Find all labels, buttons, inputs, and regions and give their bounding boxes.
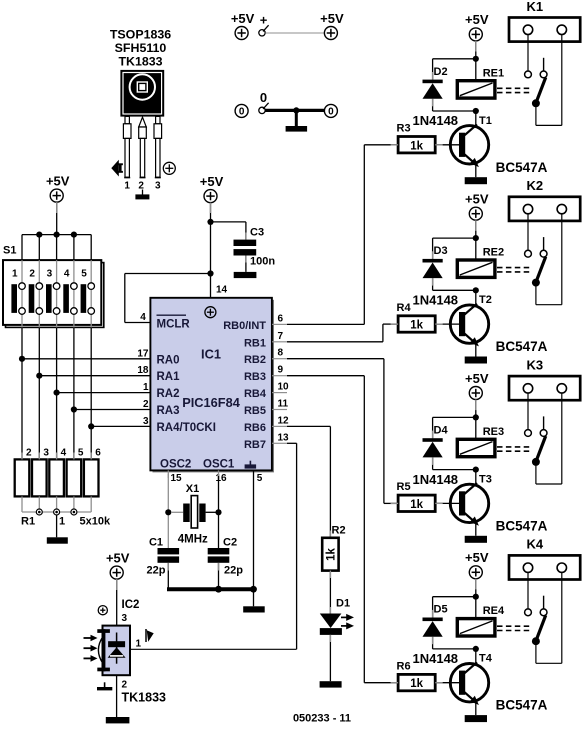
wire R1 to common rail [56, 496, 58, 512]
resistor R4 1k [397, 302, 436, 332]
wire stub [245, 233, 247, 240]
wire to D5 [433, 596, 476, 598]
svg-text:RA0: RA0 [157, 354, 180, 366]
svg-text:SFH5110: SFH5110 [115, 41, 167, 55]
mechanical link dashes RE3 [497, 447, 532, 451]
svg-text:22p: 22p [224, 565, 243, 577]
svg-text:2: 2 [26, 447, 32, 458]
ground R1 [47, 537, 68, 543]
svg-text:1: 1 [136, 639, 142, 650]
wire stub [475, 220, 477, 231]
wire K2 right down [561, 214, 563, 305]
junction D5 top [473, 594, 479, 600]
ground emitter T2 [465, 357, 487, 364]
wire D1 to ground [329, 635, 331, 681]
svg-text:C1: C1 [149, 537, 163, 549]
wire rail into S1 [56, 235, 58, 261]
junction on S1 rail [71, 232, 77, 238]
connector pin 0 [259, 90, 269, 113]
wire base [435, 502, 459, 504]
svg-text:6: 6 [278, 313, 284, 324]
svg-text:BC547A: BC547A [496, 698, 548, 713]
wire pole down [535, 462, 537, 484]
R1 labels [21, 516, 111, 528]
svg-text:13: 13 [278, 432, 290, 443]
svg-text:5x10k: 5x10k [80, 516, 111, 528]
wire stub [432, 431, 434, 439]
wire stub [432, 251, 434, 259]
resistor R1 element 2 [32, 459, 47, 496]
wire RB1 out [287, 341, 383, 343]
wire relay to collector [475, 649, 477, 664]
svg-text:D5: D5 [434, 604, 448, 616]
junction collector node [473, 287, 479, 293]
svg-text:+5V: +5V [231, 11, 255, 26]
svg-text:4: 4 [64, 269, 70, 280]
wire S1 col5 down to R1 [90, 327, 92, 459]
svg-text:0: 0 [260, 90, 267, 105]
svg-text:5: 5 [78, 447, 84, 458]
wire X1 left lead [171, 511, 183, 513]
diode D4 1N4148 [413, 424, 459, 486]
S1 position 3 [46, 260, 60, 327]
wire to MCLR pin 4 [125, 322, 151, 324]
+5V terminal above IC2 [106, 550, 130, 579]
svg-text:+5V: +5V [46, 173, 70, 188]
svg-text:100n: 100n [250, 255, 275, 267]
wire pole across [536, 304, 562, 306]
wire stub [475, 41, 477, 52]
svg-text:3: 3 [43, 447, 49, 458]
wire K3 left to contact [527, 393, 529, 430]
svg-text:RA3: RA3 [157, 405, 180, 417]
plus mark near IC2 [98, 606, 107, 615]
+5V terminal channel 3 [465, 371, 489, 400]
wire D5 anode lead [432, 637, 434, 649]
wire riser channel 3 [383, 359, 385, 504]
relay contact RE1 [525, 58, 547, 108]
+5V terminal channel 4 [465, 550, 489, 579]
svg-text:R5: R5 [397, 481, 411, 493]
plus mark inside IC1 [205, 307, 216, 318]
wire to D3 [433, 237, 476, 239]
svg-text:2: 2 [143, 399, 149, 410]
svg-text:C2: C2 [223, 537, 237, 549]
wire stub [56, 202, 58, 213]
svg-text:R4: R4 [397, 302, 412, 314]
wire thick ground rail [167, 587, 254, 591]
junction D2 top [473, 56, 479, 62]
wire C3 bottom lead [245, 256, 247, 272]
wire R1 to common rail [38, 496, 40, 512]
svg-text:T4: T4 [479, 653, 493, 665]
IC2 case ground glyph [97, 682, 112, 690]
wire to C3 [211, 221, 246, 223]
connector K1 [509, 0, 580, 42]
node RA4 junction [88, 423, 94, 429]
svg-text:RB7: RB7 [244, 439, 266, 451]
svg-text:3: 3 [155, 181, 161, 192]
wire D4 to collector node [433, 469, 476, 471]
wire MCLR pullup top [125, 273, 211, 275]
svg-text:TSOP1836: TSOP1836 [110, 28, 171, 42]
wire 0V thick link [265, 109, 324, 112]
LED D1 [320, 598, 354, 635]
mechanical link dashes RE2 [497, 268, 532, 272]
IR receiver leg pin 2 [139, 117, 147, 177]
svg-text:22p: 22p [147, 565, 166, 577]
junction circle on R1 rail [71, 509, 77, 515]
wire stub [218, 563, 220, 571]
wire pin5 down [253, 470, 255, 589]
wire stub [56, 453, 58, 460]
svg-text:R1: R1 [21, 516, 35, 528]
svg-text:1: 1 [143, 382, 149, 393]
svg-text:RE3: RE3 [483, 426, 504, 438]
wire stub [329, 607, 331, 615]
wire stub [38, 453, 40, 460]
svg-text:8: 8 [278, 348, 284, 359]
svg-text:3: 3 [143, 416, 149, 427]
wire base [435, 323, 459, 325]
svg-text:K4: K4 [526, 537, 543, 552]
svg-text:MCLR: MCLR [157, 319, 191, 331]
svg-text:D4: D4 [434, 424, 449, 436]
svg-text:2: 2 [122, 680, 128, 691]
wire RB7 out [287, 442, 297, 444]
ground IC2 [106, 717, 130, 723]
svg-text:RE1: RE1 [483, 67, 504, 79]
IC2 labels top [122, 599, 140, 624]
svg-text:RB5: RB5 [244, 405, 266, 417]
ground emitter T4 [465, 715, 487, 722]
wire stub [329, 531, 331, 538]
wire to IC1 RA4 [91, 425, 150, 427]
wire RB3 out [287, 375, 364, 377]
wire stub [475, 579, 477, 590]
wire stub [391, 144, 399, 146]
relay coil RE4 [457, 605, 505, 636]
wire rail into S1 [73, 235, 75, 261]
capacitor C1 22p [147, 537, 180, 577]
svg-text:R6: R6 [397, 661, 411, 673]
IC2 pin2 labels [122, 680, 167, 705]
wire D5 to collector node [433, 648, 476, 650]
svg-text:C3: C3 [250, 227, 264, 239]
wire stub [21, 453, 23, 460]
wire stub [391, 682, 399, 684]
junction pin5/rail [250, 586, 257, 593]
resistor R1 element 3 [49, 459, 64, 496]
wire +5V to relay [475, 41, 477, 81]
svg-text:1k: 1k [410, 140, 423, 152]
wire +5V to IC2 pin3 [116, 579, 118, 626]
resistor R2 1k [322, 525, 345, 571]
svg-text:T3: T3 [479, 473, 492, 485]
wire D2 cathode lead [432, 59, 434, 80]
IC1 pin 18 RA1 [137, 365, 180, 383]
resistor R1 element 1 [15, 459, 30, 496]
wire S1 col3 down to R1 [56, 327, 58, 459]
S1 position 2 [29, 260, 43, 327]
svg-text:2: 2 [138, 181, 144, 192]
wire emitter down [475, 343, 477, 356]
svg-text:RB6: RB6 [244, 422, 266, 434]
wire IC2 pin2 to ground [116, 675, 118, 717]
DIP switch S1 [3, 245, 104, 328]
svg-text:7: 7 [278, 331, 284, 342]
IC1 pin 7 RB1 [244, 331, 287, 350]
op IC1 PIC16F84 body [150, 298, 274, 473]
wire to IC1 RA0 [22, 358, 150, 360]
svg-text:1: 1 [124, 181, 130, 192]
wire D2 anode lead [432, 99, 434, 111]
resistor R1 element 4 [67, 459, 82, 496]
wire RB6 out [287, 425, 330, 427]
wire to R3 [364, 144, 398, 146]
wire K2 left to contact [527, 214, 529, 251]
IC1 name labels [182, 347, 241, 411]
relay coil RE3 [457, 426, 504, 457]
svg-text:R2: R2 [332, 525, 346, 537]
wire C3 top lead [245, 222, 247, 240]
junction +5V/C3 [207, 219, 213, 225]
wire stub [329, 635, 331, 642]
0V terminal right [324, 104, 337, 117]
wire stub [210, 203, 212, 213]
connector K4 [509, 537, 580, 580]
wire D3 anode lead [432, 278, 434, 290]
wire RB0 out [287, 323, 364, 325]
svg-text:BC547A: BC547A [496, 160, 548, 175]
relay coil RE1 [457, 67, 504, 98]
svg-text:K2: K2 [526, 178, 543, 193]
wire S1 col2 down to R1 [38, 327, 40, 459]
wire X1 right lead [206, 511, 216, 513]
junction OSC1/X1 [215, 509, 221, 515]
wire to ground [295, 110, 298, 126]
wire rail into S1 [21, 235, 23, 261]
ground emitter T1 [465, 177, 487, 184]
svg-text:4: 4 [140, 312, 146, 323]
IC1 OSC pins [160, 459, 263, 485]
connector K2 [509, 178, 580, 221]
svg-text:050233 - 11: 050233 - 11 [293, 713, 351, 725]
junction D3 top [473, 235, 479, 241]
wire D2 to collector node [433, 110, 476, 112]
diode D3 1N4148 [413, 245, 459, 307]
wire emitter down [475, 164, 477, 177]
junction collector node [473, 646, 479, 652]
wire pole down [535, 283, 537, 305]
wire pole down [535, 103, 537, 125]
svg-text:4MHz: 4MHz [178, 534, 208, 546]
wire rail into S1 [38, 235, 40, 261]
wire R1 pin1 to ground [56, 515, 58, 537]
junction collector node [473, 467, 479, 473]
IC1 pin 4 MCLR [140, 312, 190, 331]
svg-text:3: 3 [47, 269, 53, 280]
+5V terminal above S1 [46, 173, 70, 202]
svg-text:4: 4 [61, 447, 67, 458]
svg-text:1N4148: 1N4148 [413, 113, 459, 128]
junction circle on R1 rail [54, 509, 60, 515]
svg-text:2: 2 [29, 269, 35, 280]
wire riser channel 4 [363, 376, 365, 683]
wire to IC1 RA3 [74, 409, 150, 411]
wire stub [432, 637, 434, 645]
wire S1 col1 down to R1 [21, 327, 23, 459]
resistor R5 1k [397, 481, 436, 511]
capacitor C2 22p [208, 537, 244, 577]
wire stub [391, 323, 399, 325]
svg-text:OSC1: OSC1 [203, 459, 235, 471]
wire stub [435, 502, 443, 504]
svg-text:RE2: RE2 [483, 247, 504, 259]
wire IC2 output to RB7 riser [130, 648, 297, 650]
wire R1 to common rail [21, 496, 23, 512]
svg-text:15: 15 [170, 473, 182, 484]
wire stub [116, 579, 118, 590]
relay contact RE3 [525, 416, 547, 466]
wire stub [435, 144, 443, 146]
ground under IR pin 2 [135, 194, 149, 199]
wire to D2 [433, 58, 476, 60]
svg-text:0: 0 [239, 107, 245, 118]
node RA3 junction [71, 406, 77, 412]
wire stub [475, 400, 477, 411]
svg-text:T1: T1 [479, 115, 492, 127]
svg-text:S1: S1 [3, 245, 16, 257]
node RA0 junction [19, 356, 25, 362]
svg-text:X1: X1 [186, 483, 199, 495]
wire rail into S1 [90, 235, 92, 261]
svg-text:18: 18 [137, 365, 149, 376]
plus polarity mark at pin 3 [163, 162, 175, 174]
wire OSC2 stub [167, 470, 169, 478]
IR receiver pin numbers 1 2 3 [124, 181, 161, 192]
IC1 pin 3 RA4/T0CKI [143, 416, 216, 434]
wire +5V down to IC1 pin14 [210, 203, 212, 298]
0V terminal left [235, 104, 248, 117]
svg-text:14: 14 [216, 285, 228, 296]
wire to R4 [383, 323, 398, 325]
ground main rail [243, 606, 265, 612]
svg-text:12: 12 [278, 415, 290, 426]
+5V terminal above IC1 [200, 174, 224, 203]
+5V terminal top middle left [231, 11, 255, 40]
S1 position 5 [81, 260, 95, 327]
svg-text:RA4/T0CKI: RA4/T0CKI [157, 422, 216, 434]
photodiode IC2 TK1833 body [97, 626, 130, 676]
IC1 pin 6 RB0/INT [223, 313, 287, 332]
svg-text:BC547A: BC547A [496, 518, 548, 533]
wire C1 to rail [167, 563, 169, 589]
wire riser channel 1 [363, 145, 365, 325]
svg-text:TK1833: TK1833 [118, 54, 162, 68]
wire D5 cathode lead [432, 597, 434, 618]
svg-text:5: 5 [257, 473, 263, 484]
wire K1 left to contact [527, 35, 529, 72]
wire stub [432, 610, 434, 618]
svg-text:6: 6 [95, 447, 101, 458]
diode D2 1N4148 [413, 66, 459, 128]
wire OSC2 down [167, 474, 169, 548]
IC2 incoming IR arrows [84, 635, 98, 662]
svg-text:11: 11 [278, 399, 289, 410]
IC1 pin 1 RA2 [143, 382, 180, 400]
wire stub [245, 256, 247, 263]
svg-text:1N4148: 1N4148 [413, 651, 459, 666]
svg-text:1N4148: 1N4148 [413, 293, 459, 308]
relay contact RE4 [525, 596, 547, 646]
wire emitter down [475, 523, 477, 536]
svg-text:D2: D2 [434, 66, 448, 78]
wire emitter down [475, 702, 477, 715]
relay coil RE2 [457, 247, 504, 278]
IR receiver package front view [120, 70, 164, 117]
svg-text:RA2: RA2 [157, 388, 180, 400]
svg-text:+5V: +5V [465, 550, 489, 565]
svg-text:10: 10 [278, 382, 290, 393]
transistor T1 BC547A [450, 115, 547, 175]
IC2 output arrow glyph [146, 629, 154, 642]
mechanical link dashes RE4 [497, 626, 532, 630]
svg-text:1N4148: 1N4148 [413, 472, 459, 487]
svg-text:RA1: RA1 [157, 371, 181, 383]
IR receiver leg pin 1 [123, 116, 131, 177]
svg-text:5: 5 [81, 269, 87, 280]
IC1 pin 2 RA3 [143, 399, 180, 417]
wire R2 to D1 [329, 571, 331, 615]
svg-text:1: 1 [12, 269, 18, 280]
junction D4 top [473, 414, 479, 420]
junction +5V/MCLR [207, 270, 213, 276]
wire pole down [535, 641, 537, 663]
R1 pin numbers 2-6 [26, 447, 101, 458]
wire +5V to relay [475, 220, 477, 260]
IC1 pin 12 RB6 [244, 415, 289, 434]
wire stub [432, 99, 434, 107]
IC1 pin 10 RB4 [244, 382, 289, 401]
svg-text:D1: D1 [336, 598, 350, 610]
diode D5 1N4148 [413, 604, 459, 666]
IC1 pin 17 RA0 [137, 348, 179, 366]
wire riser channel 2 [382, 324, 384, 342]
ground D1 [320, 681, 342, 687]
wire to IC1 RA2 [57, 392, 151, 394]
IC1 pin 11 RB5 [244, 399, 289, 418]
wire +5V to S1 rail [56, 202, 58, 235]
svg-text:0: 0 [328, 107, 334, 118]
svg-text:IC2: IC2 [122, 599, 140, 611]
resistor R6 1k [397, 661, 436, 691]
wire to IC1 RA1 [39, 375, 150, 377]
junction on S1 rail [36, 232, 42, 238]
wire RB6 riser down to R2 [329, 426, 331, 537]
ground emitter T3 [465, 536, 487, 543]
svg-text:1k: 1k [410, 678, 423, 690]
svg-text:1: 1 [59, 516, 65, 528]
+5V terminal channel 1 [465, 12, 489, 41]
junction C2/rail [215, 586, 222, 593]
wire D4 anode lead [432, 457, 434, 469]
IC1 pin 13 RB7 [244, 432, 289, 451]
svg-text:3: 3 [122, 613, 128, 624]
IC1 pin 8 RB2 [244, 348, 287, 367]
node RA1 junction [36, 373, 42, 379]
junction circle on R1 rail [36, 509, 42, 515]
